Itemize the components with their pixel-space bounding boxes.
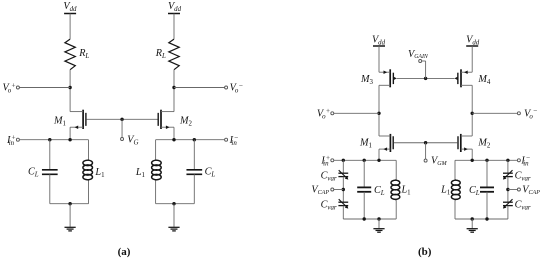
wire Cvar branch 2 (b right) xyxy=(507,177,509,203)
label M4 xyxy=(477,74,491,86)
wire CL branch upper (b left) xyxy=(363,160,365,187)
wire Iin- rail (b) xyxy=(455,159,518,161)
inductor L1 (fig a left) xyxy=(83,160,93,181)
label Cvar lower (b left) xyxy=(321,199,337,211)
wire ground stub (a right) xyxy=(173,204,175,227)
svg-text:VCAP: VCAP xyxy=(522,185,540,197)
node M2 source junction xyxy=(172,138,175,141)
svg-text:VGAIN: VGAIN xyxy=(408,49,429,60)
label L1 (b right) xyxy=(440,185,451,197)
label Cvar upper (b left) xyxy=(321,170,337,182)
svg-text:RL: RL xyxy=(78,48,89,60)
wire CL branch upper (b right) xyxy=(486,160,488,187)
svg-text:L1: L1 xyxy=(135,167,146,179)
node CL2 top junction xyxy=(193,138,196,141)
wire VCAP stub (b left) xyxy=(334,189,344,191)
wire RL1 to M1 drain xyxy=(69,70,71,112)
wire bottom rail (a right) xyxy=(156,203,195,205)
label VG xyxy=(127,134,138,146)
svg-text:Iin+: Iin+ xyxy=(320,154,330,167)
wire M2 source down xyxy=(173,127,175,140)
terminal VGM xyxy=(424,159,427,162)
node M1 source junction xyxy=(68,138,71,141)
node CL top junction (b right) xyxy=(485,159,488,162)
wire ground stub (b left) xyxy=(378,219,380,228)
label M1 (fig b) xyxy=(359,138,373,150)
transistor M2 (fig a) xyxy=(158,110,174,129)
label L1 (fig a right) xyxy=(135,167,146,179)
terminal VCAP (b right) xyxy=(517,188,520,191)
wire VGM drop xyxy=(425,143,427,159)
node Vo+ junction xyxy=(68,86,71,89)
wire L1b branch lower xyxy=(155,181,157,204)
node ground junction (b left) xyxy=(377,217,380,220)
label Vo+ xyxy=(2,81,15,94)
node Vo- junction (b) xyxy=(471,112,474,115)
transistor M3 xyxy=(379,69,397,87)
terminal VCAP (b left) xyxy=(331,188,334,191)
svg-text:Vdd: Vdd xyxy=(63,1,77,13)
inductor L1 (fig a right) xyxy=(152,160,162,181)
svg-text:L1: L1 xyxy=(401,185,412,197)
node CL bottom junction (b right) xyxy=(485,217,488,220)
svg-text:M2: M2 xyxy=(477,138,491,150)
svg-text:Vo+: Vo+ xyxy=(317,107,330,120)
wire CL1 branch lower xyxy=(49,174,51,203)
wire M3 drain to M1 drain xyxy=(378,85,380,136)
svg-text:Cvar: Cvar xyxy=(515,170,531,182)
svg-text:Iin+: Iin+ xyxy=(6,134,16,147)
wire Vdd4 to M4 source xyxy=(471,46,473,72)
wire Vo- rail xyxy=(174,87,225,89)
wire CL branch lower (b right) xyxy=(486,192,488,219)
svg-text:Vo+: Vo+ xyxy=(2,81,15,94)
label M2 (fig b) xyxy=(477,138,491,150)
node ground junction (a right) xyxy=(172,202,175,205)
terminal Vo+ (b) xyxy=(331,112,334,115)
wire RL2 to M2 drain xyxy=(173,70,175,112)
wire L1 branch upper (b left) xyxy=(395,160,397,179)
wire VG drop xyxy=(121,119,123,137)
svg-text:M2: M2 xyxy=(179,115,193,127)
capacitor CL (fig a right) xyxy=(186,170,202,175)
label M1 (fig a) xyxy=(53,115,67,127)
capacitor CL (fig a left) xyxy=(42,170,58,175)
wire Iin+ rail xyxy=(19,139,88,141)
svg-text:Vo−: Vo− xyxy=(230,81,243,94)
label L1 (b left) xyxy=(401,185,412,197)
capacitor Cvar upper (b right) xyxy=(503,170,513,179)
terminal Vo- xyxy=(225,86,228,89)
svg-text:L1: L1 xyxy=(94,167,105,179)
node Vo+ junction (b) xyxy=(377,112,380,115)
svg-text:Cvar: Cvar xyxy=(515,199,531,211)
wire Cvar branch 2 (b left) xyxy=(342,177,344,203)
power Vdd (right, fig b) xyxy=(466,35,480,47)
node Vo- junction xyxy=(172,86,175,89)
terminal Vo- (b) xyxy=(517,112,520,115)
wire bottom rail (b right) xyxy=(455,218,508,220)
wire Cvar branch 1 (b left) xyxy=(342,160,344,173)
svg-text:Iin−: Iin− xyxy=(520,154,530,167)
wire gate rail M1-M2 (b) xyxy=(394,142,457,144)
svg-text:M4: M4 xyxy=(477,74,491,86)
wire M4 drain to M2 drain xyxy=(471,85,473,136)
svg-text:Vo−: Vo− xyxy=(524,107,537,120)
svg-text:(a): (a) xyxy=(118,246,131,258)
node M1 source junction (b) xyxy=(377,159,380,162)
wire Vo+ rail xyxy=(19,87,70,89)
svg-text:VCAP: VCAP xyxy=(311,185,329,197)
label Vo+ (b) xyxy=(317,107,330,120)
node Cvar top junction (b right) xyxy=(506,159,509,162)
wire L1 branch lower (b left) xyxy=(395,200,397,219)
wire ground stub (a left) xyxy=(69,204,71,227)
label CL (fig a right) xyxy=(205,167,216,179)
label M2 (fig a) xyxy=(179,115,193,127)
label CL (b right) xyxy=(469,185,480,197)
svg-text:Cvar: Cvar xyxy=(321,199,337,211)
wire Iin+ rail (b) xyxy=(334,159,397,161)
wire CL2 branch upper xyxy=(193,140,195,170)
label Iin+ (b) xyxy=(320,154,330,167)
label Cvar upper (b right) xyxy=(515,170,531,182)
node ground junction (b right) xyxy=(471,217,474,220)
terminal Iin- xyxy=(225,138,228,141)
svg-text:M1: M1 xyxy=(359,138,373,150)
capacitor Cvar lower (b right) xyxy=(503,199,513,208)
wire M1 source down xyxy=(69,127,71,140)
wire Vdd2 to RL2 xyxy=(173,14,175,40)
terminal Iin- (b) xyxy=(517,159,520,162)
wire M2 source down (b) xyxy=(471,149,473,160)
label CL (b left) xyxy=(374,185,385,197)
label Vo- xyxy=(230,81,243,94)
transistor M4 xyxy=(454,69,472,87)
svg-text:VGM: VGM xyxy=(431,156,448,168)
node VGAIN junction xyxy=(424,77,427,80)
wire ground stub (b right) xyxy=(471,219,473,228)
node CL top junction (b left) xyxy=(363,159,366,162)
svg-text:VG: VG xyxy=(127,134,138,146)
node VCAP junction (b left) xyxy=(342,188,345,191)
transistor M1 (fig a) xyxy=(70,110,86,129)
ground (fig a right) xyxy=(168,227,179,231)
caption (a) xyxy=(118,246,131,258)
label RL (right) xyxy=(155,48,166,60)
wire gate rail (a) xyxy=(87,118,158,120)
wire Iin- rail xyxy=(156,139,225,141)
capacitor Cvar lower (b left) xyxy=(338,199,348,208)
wire bottom rail (a left) xyxy=(50,203,89,205)
label VGAIN xyxy=(408,49,429,60)
transistor M1 (fig b) xyxy=(379,134,393,152)
terminal Iin+ (b) xyxy=(331,159,334,162)
power Vdd (right, fig a) xyxy=(168,1,182,14)
wire L1b branch upper xyxy=(155,140,157,160)
svg-text:CL: CL xyxy=(28,167,39,179)
wire gate rail M3-M4 xyxy=(397,77,455,79)
capacitor CL (b left) xyxy=(357,187,371,191)
wire Cvar branch 3 (b right) xyxy=(507,206,509,219)
label Iin+ xyxy=(6,134,16,147)
label VCAP (b right) xyxy=(522,185,540,197)
label L1 (fig a left) xyxy=(94,167,105,179)
wire CL branch lower (b left) xyxy=(363,192,365,219)
svg-text:Vdd: Vdd xyxy=(372,35,386,47)
svg-text:Iin−: Iin− xyxy=(229,134,239,147)
label Iin- (b) xyxy=(520,154,530,167)
node ground junction (a left) xyxy=(68,202,71,205)
wire L1a branch lower xyxy=(88,181,90,204)
svg-text:RL: RL xyxy=(155,48,166,60)
wire VGAIN drop xyxy=(422,61,426,78)
svg-text:(b): (b) xyxy=(418,246,432,258)
svg-text:Cvar: Cvar xyxy=(321,170,337,182)
label M3 xyxy=(360,74,374,86)
wire Vo+ rail (b) xyxy=(334,112,379,114)
label Cvar lower (b right) xyxy=(515,199,531,211)
svg-text:CL: CL xyxy=(374,185,385,197)
capacitor Cvar upper (b left) xyxy=(338,170,348,179)
inductor L1 (b left) xyxy=(391,179,400,200)
wire Vdd3 to M3 source xyxy=(378,46,380,72)
label RL (left) xyxy=(78,48,89,60)
terminal Vo+ xyxy=(16,86,19,89)
resistor RL (right) xyxy=(169,39,179,70)
node VGM junction xyxy=(424,141,427,144)
label Vo- (b) xyxy=(524,107,537,120)
wire CL2 branch lower xyxy=(193,174,195,203)
wire L1a branch upper xyxy=(88,140,90,160)
node CL bottom junction (b left) xyxy=(363,217,366,220)
svg-text:CL: CL xyxy=(469,185,480,197)
power Vdd (left, fig b) xyxy=(372,35,386,47)
svg-text:L1: L1 xyxy=(440,185,451,197)
wire M1 source down (b) xyxy=(378,149,380,160)
wire Vdd1 to RL1 xyxy=(69,14,71,40)
node VCAP junction (b right) xyxy=(506,188,509,191)
resistor RL (left) xyxy=(65,39,75,70)
power Vdd (left, fig a) xyxy=(63,1,77,14)
terminal Iin+ xyxy=(16,138,19,141)
wire bottom rail (b left) xyxy=(343,218,396,220)
wire L1 branch lower (b right) xyxy=(454,200,456,219)
svg-text:Vdd: Vdd xyxy=(466,35,480,47)
label VCAP (b left) xyxy=(311,185,329,197)
terminal VG xyxy=(121,138,124,141)
label Iin- xyxy=(229,134,239,147)
terminal VGAIN xyxy=(419,60,422,63)
wire VCAP stub (b right) xyxy=(508,189,518,191)
label CL (fig a left) xyxy=(28,167,39,179)
label VGM xyxy=(431,156,448,168)
wire Cvar branch 1 (b right) xyxy=(507,160,509,173)
ground (fig b right) xyxy=(467,229,478,233)
wire Cvar branch 3 (b left) xyxy=(342,206,344,219)
wire CL1 branch upper xyxy=(49,140,51,170)
svg-text:M1: M1 xyxy=(53,115,67,127)
svg-text:M3: M3 xyxy=(360,74,374,86)
node CL1 top junction xyxy=(48,138,51,141)
wire Vo- rail (b) xyxy=(472,112,517,114)
transistor M2 (fig b) xyxy=(458,134,472,152)
node VG junction xyxy=(120,118,123,121)
ground (fig b left) xyxy=(373,229,384,233)
capacitor CL (b right) xyxy=(480,187,494,191)
svg-text:CL: CL xyxy=(205,167,216,179)
ground (fig a left) xyxy=(65,227,76,231)
wire L1 branch upper (b right) xyxy=(454,160,456,179)
inductor L1 (b right) xyxy=(451,179,460,200)
svg-text:Vdd: Vdd xyxy=(168,1,182,13)
caption (b) xyxy=(418,246,432,258)
node M2 source junction (b) xyxy=(471,159,474,162)
node Cvar top junction (b left) xyxy=(342,159,345,162)
